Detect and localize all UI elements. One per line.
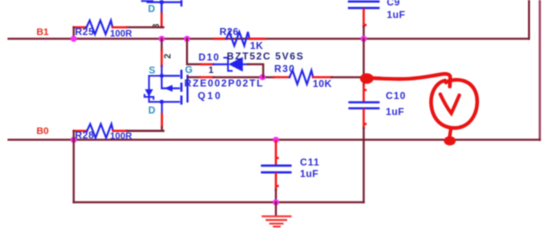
ground symbol [275,202,277,215]
transistor Q10 body tap with arrow [162,76,179,89]
wire R30 to C10 branch [332,76,364,78]
capacitor C9 bottom plate [349,7,379,9]
upper MOSFET remnant: zener bar [142,0,153,1]
svg-text:BZT52C 5V6S: BZT52C 5V6S [227,51,304,62]
svg-text:S: S [149,66,156,77]
annotation: voltmeter bottom lead [450,128,451,137]
svg-text:1uF: 1uF [386,107,405,118]
resistor R30 left pin [274,76,290,78]
wire right vertical to B0 [539,0,541,140]
wire bottom loop left vertical [73,140,75,203]
wire B1 to Q10 source [161,39,163,51]
svg-text:1: 1 [209,65,214,75]
svg-text:1uF: 1uF [300,169,319,180]
junction dot rail/C11 [273,199,279,205]
wire B1 to C10 [363,39,365,85]
wire R25 drop to B1 [73,27,75,39]
resistor R28 right pin [113,130,127,132]
svg-text:B1: B1 [37,27,50,38]
diode D10 anode lead [243,63,248,65]
annotation: voltmeter V glyph [440,94,459,113]
annotation: bottom probe blob [444,136,456,145]
upper MOSFET remnant: drain stem blue [161,2,163,13]
transistor Q10 drain dot [160,100,164,104]
capacitor C10 top plate [350,101,379,103]
svg-text:B0: B0 [37,126,49,137]
svg-text:2: 2 [162,54,172,59]
capacitor C10 bottom pin (red) [364,110,366,129]
resistor R25 right pin [113,26,127,28]
transistor Q10 drain pin (red) [161,114,163,127]
svg-text:100R: 100R [110,131,132,141]
transistor Q10 channel segments [180,71,182,104]
capacitor C10 bottom plate [350,107,379,109]
transistor Q10 drain stem [161,102,163,114]
annotation: probe wire to voltmeter [371,74,450,87]
capacitor C11 bottom plate [262,171,291,173]
svg-text:100R: 100R [110,29,132,39]
wire R28 to Q10 drain lead [127,130,163,132]
svg-text:RZE002P02TL: RZE002P02TL [184,79,264,90]
resistor R25 body [87,20,113,34]
diode D10 cathode lead [214,63,229,65]
annotation: probe dot at R30/C10 node [360,73,374,84]
svg-text:C11: C11 [300,158,320,169]
resistor R26 body [226,32,249,46]
annotation: voltmeter circle [431,80,477,128]
wire B1 right corner up [528,0,530,39]
wire C11 to bottom rail [275,190,277,203]
resistor R30 right pin [313,76,332,78]
diode D10 zener cathode bar [224,58,232,71]
transistor Q10 gate pin (red) [200,76,214,78]
transistor Q10 body arrowhead [164,85,172,92]
wire gate to R30 [189,76,201,78]
junction dot gate/D10 anode [259,74,265,80]
svg-text:C10: C10 [386,91,406,102]
resistor R28 body [87,124,113,138]
svg-text:R28: R28 [75,130,94,141]
capacitor C11 top pin (red) [276,141,278,165]
svg-text:1uF: 1uF [387,10,406,21]
svg-text:C9: C9 [387,0,400,8]
svg-text:D: D [148,105,155,116]
transistor Q10 body zener triangle [145,89,153,96]
resistor R30 body [290,70,314,84]
junction dot B1/D10 branch [184,36,190,42]
junction dot B0/C11 [273,137,279,143]
upper MOSFET remnant: channel segment [180,0,182,6]
svg-text:R25: R25 [75,27,94,38]
wire D10 branch from B1 [187,39,201,65]
wire drain lead to R25 [127,26,164,28]
junction dot B0/R28 [71,137,77,143]
transistor Q10 body zener loop [149,76,162,102]
resistor R25 left pin [74,26,87,28]
transistor Q10 source dot [160,74,164,78]
upper MOSFET remnant: bottom loop wire [148,1,182,3]
wire gate pin to junction [214,76,275,78]
capacitor C10 top pin (red) [364,85,366,101]
junction dot B1/R25 [71,36,77,42]
wire B1 horizontal rail [9,38,530,40]
wire bottom rail [74,201,364,203]
junction dot B1/C9 [361,36,367,42]
wire drain to R28 lead [127,127,164,131]
svg-text:G: G [185,65,193,76]
upper MOSFET drain pin (red) [161,14,163,28]
junction dot B1/Q10 source [159,36,165,42]
svg-text:Q10: Q10 [198,91,223,102]
svg-text:10K: 10K [313,79,332,90]
capacitor C9 top plate [349,0,379,2]
upper MOSFET remnant: drain junction dot [159,0,163,4]
svg-text:D: D [148,4,155,15]
wire R28 drop to B0 [73,131,75,140]
svg-text:R30: R30 [274,64,295,75]
resistor R26 right pin [249,38,264,40]
svg-text:R26: R26 [220,27,239,38]
wire C9 to B1 [363,27,365,39]
svg-text:D10: D10 [199,53,221,64]
transistor Q10 source pin (red) [161,51,163,67]
resistor R26 left pin [215,38,226,40]
capacitor C11 bottom pin (red) [276,174,278,190]
capacitor C11 top plate [262,165,291,167]
transistor Q10 source stub [162,75,179,77]
capacitor C9 bottom pin (red) [364,10,366,27]
transistor Q10 drain stub [162,101,179,103]
transistor Q10 source stem [161,66,163,76]
transistor Q10 gate bar [187,76,189,102]
resistor R28 left pin [74,130,87,132]
transistor Q10 body zener bar [145,95,154,99]
wire D10 anode to gate wire [248,64,263,77]
wire B0 horizontal rail [9,139,540,141]
diode D10 cathode pin (red) [201,63,214,65]
diode D10 triangle [228,57,242,72]
wire C10 to B0 and bottom rail [363,128,365,202]
